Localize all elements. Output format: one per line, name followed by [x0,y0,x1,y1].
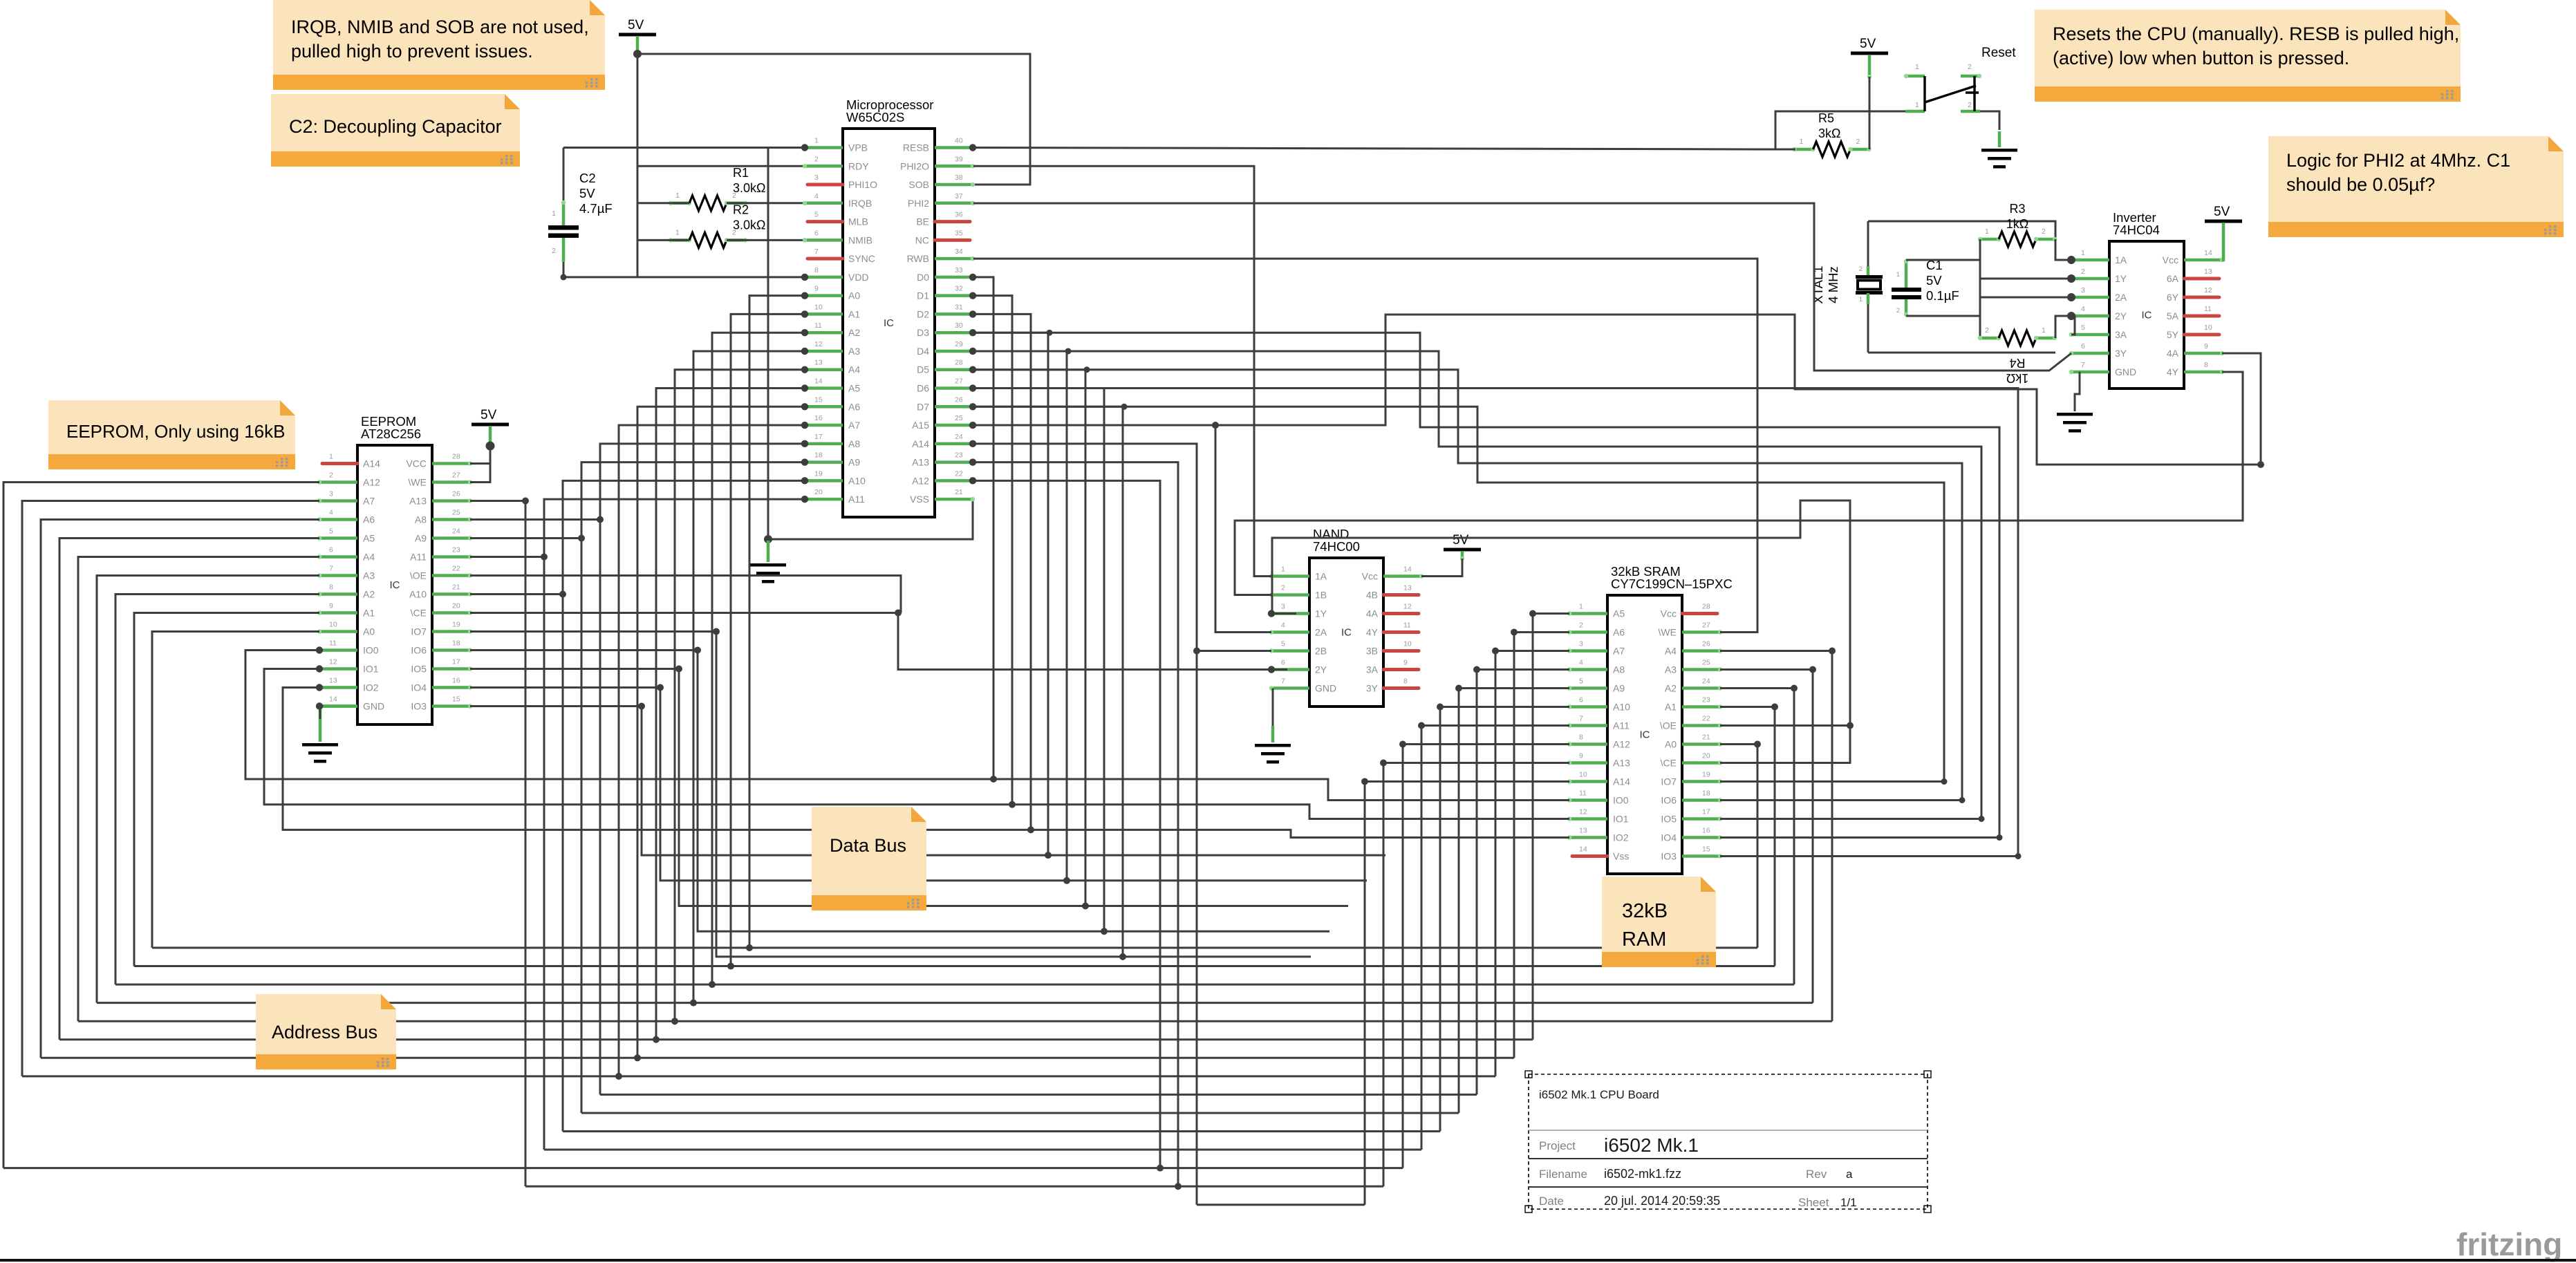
svg-text:10: 10 [1579,771,1587,779]
svg-text:A1: A1 [848,308,860,319]
wire 2A feed column [1215,425,1271,632]
svg-text:IRQB, NMIB and SOB are not use: IRQB, NMIB and SOB are not used, [291,17,589,37]
CPU W65C02S pin 21 VSS [910,488,975,505]
wire NAND 2Y to EEPROM CE and OE [470,613,1287,670]
wire R3 left to 1Y [1980,239,2071,279]
SRAM CY7C199 pin 17 IO5 [1661,808,1722,825]
CPU W65C02S pin 38 SOB [908,174,975,190]
svg-text:3: 3 [329,490,333,498]
wire EEPROM left pin 10 column [152,632,319,948]
svg-text:A11: A11 [1613,720,1630,731]
svg-text:1A: 1A [1315,571,1327,582]
EEPROM AT28C256 pin 17 IO5 [411,658,472,675]
EEPROM AT28C256 pin 10 A0 [317,621,375,637]
wire EEPROM left pin 7 column [97,576,319,1003]
wire 2Y to 3A [2071,316,2075,335]
SRAM CY7C199 pin 7 A11 [1567,715,1630,731]
wire EEPROM IO6 fan [470,649,698,651]
svg-text:RWB: RWB [907,253,929,264]
svg-text:2: 2 [329,471,333,480]
bottom border line [0,1259,2576,1262]
svg-text:3A: 3A [2115,329,2127,340]
svg-text:3: 3 [814,174,819,182]
svg-text:22: 22 [452,565,460,573]
EEPROM AT28C256 pin 1 A14 [322,453,380,469]
bus band column 6 up [1513,633,1515,1058]
capacitor C2 [548,148,613,281]
svg-text:RAM: RAM [1622,928,1666,951]
svg-text:2A: 2A [2115,292,2127,303]
svg-text:4: 4 [1281,621,1285,630]
svg-text:IRQB: IRQB [848,198,872,209]
svg-text:25: 25 [452,509,460,517]
svg-text:2: 2 [1985,326,1989,335]
svg-text:4Y: 4Y [2167,366,2179,377]
wire SRAM OE join [1720,724,1850,727]
wire EEPROM IO3 fan [470,705,642,707]
CPU W65C02S pin 32 D1 [917,285,976,301]
svg-text:A14: A14 [1613,776,1630,787]
SRAM CY7C199 pin 23 A1 [1665,696,1722,713]
svg-text:11: 11 [2204,305,2212,313]
bus band line 8 [600,1094,1477,1096]
NAND 74HC00 pin 5 2B [1269,640,1327,657]
svg-text:Sheet: Sheet [1798,1196,1829,1209]
svg-text:28: 28 [955,359,963,367]
CPU W65C02S pin 1 VPB [801,137,868,153]
bus band column 2 up [1793,689,1795,985]
svg-text:11: 11 [1403,621,1411,630]
svg-text:A9: A9 [415,533,427,544]
wire 5V column down to VDD rail [637,54,639,277]
svg-text:9: 9 [814,285,819,293]
wire inverter 4A join [2222,353,2261,465]
svg-text:24: 24 [955,433,963,441]
SRAM CY7C199 pin 9 A13 [1567,752,1630,769]
wire EEPROM left pin 4 column [41,520,319,1058]
svg-text:A11: A11 [410,552,427,563]
wire CPU A9 staircase column [581,462,805,1113]
bus band column 12 up [1402,745,1404,1168]
svg-text:A4: A4 [363,552,375,563]
svg-text:1: 1 [675,228,680,236]
svg-text:\WE: \WE [409,477,427,488]
wire CPU A2 staircase column [712,333,805,984]
svg-text:A13: A13 [912,457,929,468]
svg-text:fritzing: fritzing [2456,1226,2562,1262]
svg-text:A7: A7 [1613,646,1625,657]
svg-text:i6502 Mk.1 CPU Board: i6502 Mk.1 CPU Board [1539,1088,1659,1101]
svg-text:3A: 3A [1366,664,1379,675]
svg-text:VDD: VDD [848,272,869,283]
svg-text:27: 27 [452,471,460,480]
svg-text:SOB: SOB [908,179,929,190]
SRAM CY7C199 pin 15 IO3 [1661,845,1722,862]
wire VDD rail (C2 bottom) [563,276,805,278]
svg-text:38: 38 [955,174,963,182]
bus band column 13 up [1383,763,1385,1187]
svg-text:5V: 5V [628,18,644,32]
CPU W65C02S pin 39 PHI2O [900,155,975,171]
svg-text:25: 25 [1702,659,1710,667]
svg-text:5A: 5A [2167,310,2179,321]
EEPROM AT28C256 pin 11 IO0 [316,639,379,656]
svg-text:5V: 5V [1453,533,1469,548]
svg-text:14: 14 [1579,845,1587,854]
svg-text:2: 2 [1859,265,1863,273]
wire SRAM left pin join 1 [1514,631,1569,633]
svg-text:21: 21 [955,488,963,496]
bus band line 7 [22,1075,1495,1077]
resistor R1 3.0k [669,166,766,211]
svg-text:MLB: MLB [848,216,868,227]
svg-text:27: 27 [1702,621,1710,630]
svg-text:should be 0.05µf?: should be 0.05µf? [2286,174,2435,195]
svg-text:Vcc: Vcc [2163,254,2178,265]
svg-text:Rev: Rev [1806,1168,1827,1181]
CPU W65C02S pin 11 A2 [801,321,861,338]
svg-text:6: 6 [2081,342,2085,350]
IC SRAM CY7C199 body [1607,564,1733,874]
wire EEPROM IO5 column to data row [679,669,1348,906]
svg-text:6: 6 [329,546,333,554]
svg-text:A13: A13 [1613,758,1630,769]
bus band T junction A12 column [1157,1165,1164,1172]
svg-text:IO6: IO6 [411,645,427,656]
5V inverter [2205,205,2242,223]
svg-text:8: 8 [814,266,819,274]
svg-text:16: 16 [814,414,823,422]
svg-text:5V: 5V [2214,205,2230,219]
svg-text:A2: A2 [848,327,860,338]
CPU W65C02S pin 19 A10 [801,469,866,486]
SRAM CY7C199 pin 8 A12 [1567,733,1630,750]
svg-text:Vss: Vss [1613,851,1629,862]
EEPROM AT28C256 pin 15 IO3 [411,695,472,712]
IC EEPROM AT28C256 body [357,414,432,724]
svg-text:11: 11 [329,639,337,648]
wire 5V to EEPROM VCC and WE [470,446,490,483]
CPU W65C02S pin 25 A15 [912,414,976,431]
svg-text:19: 19 [814,469,823,478]
wire NAND 1Y up and right to SRAM CE [1272,500,1850,763]
wire EEPROM left pin 2 column [3,483,319,1168]
svg-text:3kΩ: 3kΩ [1818,127,1840,140]
svg-text:20: 20 [452,602,460,610]
svg-text:A1: A1 [363,608,375,619]
svg-text:39: 39 [955,155,963,163]
svg-text:7: 7 [329,565,333,573]
wire CPU A0 staircase column [749,296,805,948]
SRAM CY7C199 pin 16 IO4 [1661,827,1722,843]
svg-text:2: 2 [1968,101,1972,109]
CPU W65C02S pin 30 D3 [917,321,976,338]
svg-text:W65C02S: W65C02S [846,110,904,124]
svg-text:4B: 4B [1366,590,1378,601]
svg-text:PHI2: PHI2 [908,198,929,209]
svg-text:7: 7 [1281,677,1285,686]
svg-text:1Y: 1Y [2115,273,2127,284]
wire D2 staircase column [973,314,1031,830]
svg-text:R5: R5 [1818,111,1834,125]
CPU W65C02S pin 35 NC [915,229,970,245]
wire EEPROM GND pin to ground [320,704,357,708]
Inverter 74HC04 pin 9 4A [2167,342,2224,359]
CPU W65C02S pin 10 A1 [801,303,861,319]
svg-text:IO7: IO7 [411,626,427,637]
svg-text:5V: 5V [579,186,595,200]
svg-text:A8: A8 [1613,664,1625,675]
SRAM CY7C199 pin 28 Vcc [1661,603,1717,619]
svg-text:A0: A0 [363,626,375,637]
svg-text:8: 8 [1403,677,1408,686]
wire EEPROM OE join [470,576,901,613]
wire A13 right column [973,462,1178,1187]
bus band column 1 up [1774,707,1776,966]
svg-text:A7: A7 [363,496,375,507]
wire 5V rail to SOB [637,54,1030,185]
wire CPU A4 staircase column [675,370,805,1021]
EEPROM AT28C256 pin 3 A7 [317,490,375,507]
SRAM CY7C199 pin 1 A5 [1567,603,1625,619]
svg-text:1/1: 1/1 [1840,1196,1857,1209]
IC NAND 74HC00 body [1309,527,1383,707]
svg-text:A4: A4 [848,364,860,375]
svg-text:5Y: 5Y [2167,329,2179,340]
svg-text:A11: A11 [848,494,865,505]
svg-text:21: 21 [1702,733,1710,742]
svg-text:74HC00: 74HC00 [1313,539,1360,554]
ground below NAND [1255,726,1291,764]
junction dots inverter inputs [2067,256,2075,264]
resistor R5 3k [1792,111,1871,157]
SRAM CY7C199 pin 22 \OE [1660,715,1722,731]
svg-text:D2: D2 [917,308,929,319]
svg-text:R1: R1 [733,166,749,180]
svg-text:R4: R4 [2009,356,2025,370]
wire 2A feed [1980,297,2071,299]
svg-text:5V: 5V [1926,273,1942,288]
svg-text:CY7C199CN–15PXC: CY7C199CN–15PXC [1611,577,1733,591]
wire NAND GND pin down [1272,689,1274,727]
crystal XTAL1 4MHz [1811,221,1883,353]
wire inverter 4Y to NAND 1B [1235,372,2243,595]
svg-text:4: 4 [1579,659,1583,667]
wire SRAM left pin join 3 [1477,668,1569,671]
svg-text:D4: D4 [917,346,929,357]
svg-text:IO2: IO2 [1613,832,1629,843]
wire EEPROM left pin 3 column [22,501,319,1076]
EEPROM AT28C256 pin 27 \WE [409,471,473,488]
svg-text:D6: D6 [917,383,929,394]
bus wrap stub 0 [1720,743,1757,745]
SRAM CY7C199 pin 25 A3 [1665,659,1722,675]
svg-text:17: 17 [814,433,823,441]
svg-text:VCC: VCC [406,458,427,469]
wire D5 staircase column [973,370,1085,906]
svg-text:D7: D7 [917,401,929,412]
svg-text:26: 26 [1702,640,1710,648]
svg-text:5: 5 [1281,640,1285,648]
svg-text:14: 14 [329,695,337,704]
svg-text:Date: Date [1539,1195,1564,1208]
CPU W65C02S pin 16 A7 [801,414,861,431]
svg-text:5V: 5V [480,408,497,422]
Inverter 74HC04 pin 7 GND [2069,361,2136,377]
svg-text:D0: D0 [917,272,929,283]
svg-text:1Y: 1Y [1315,608,1327,619]
svg-text:IC: IC [2142,310,2152,321]
bus band column 4 up [1831,651,1833,1022]
SRAM CY7C199 pin 27 \WE [1659,621,1723,638]
wire SRAM left pin join 4 [1458,687,1569,689]
Inverter 74HC04 pin 4 2Y [2068,305,2127,321]
svg-text:12: 12 [2204,286,2212,294]
svg-text:0.1µF: 0.1µF [1926,288,1959,303]
bus band column 10 up [1439,707,1441,1132]
5V symbol above CPU [619,18,656,37]
svg-text:IO6: IO6 [1661,795,1677,806]
svg-text:1: 1 [2081,249,2085,257]
CPU W65C02S pin 12 A3 [801,340,861,357]
resistor R3 1k [1978,202,2057,247]
CPU W65C02S pin 9 A0 [801,285,861,301]
svg-text:IO7: IO7 [1661,776,1677,787]
wire NAND 2B from A14 column [1197,650,1271,652]
svg-text:IO0: IO0 [363,645,379,656]
SRAM CY7C199 pin 10 A14 [1567,771,1630,787]
svg-text:5V: 5V [1860,37,1876,51]
wire EEPROM IO1 to data row 1 [264,669,1569,819]
wire CPU A10 staircase column [563,480,805,1131]
svg-text:1: 1 [1985,227,1989,236]
svg-text:\CE: \CE [1661,758,1677,769]
svg-text:4Y: 4Y [1366,627,1379,638]
svg-text:Vcc: Vcc [1362,571,1378,582]
wire R2 to NMIB [637,239,689,241]
EEPROM AT28C256 pin 4 A6 [317,509,375,525]
svg-text:5: 5 [2081,324,2085,332]
svg-text:A0: A0 [1665,739,1677,750]
Inverter 74HC04 pin 14 Vcc [2163,249,2225,265]
svg-text:A12: A12 [912,475,929,486]
svg-text:D1: D1 [917,290,929,301]
svg-text:34: 34 [955,247,963,256]
svg-text:IC: IC [1341,627,1352,639]
svg-text:4A: 4A [1366,608,1379,619]
svg-text:2A: 2A [1315,627,1327,638]
svg-text:A3: A3 [848,346,860,357]
svg-text:4: 4 [2081,305,2085,313]
bus band column 7 up [1495,651,1497,1076]
wire CPU A3 staircase column [693,351,805,1003]
note Address Bus [256,994,396,1069]
svg-text:A15: A15 [912,420,929,431]
wire EEPROM IO4 column to data row [660,688,1367,881]
svg-text:2: 2 [552,247,556,255]
CPU W65C02S pin 29 D4 [917,340,976,357]
svg-text:4A: 4A [2167,348,2179,359]
bus band line 12 [3,1167,1403,1169]
svg-text:A14: A14 [912,438,929,449]
svg-text:A4: A4 [1665,646,1677,657]
svg-text:8: 8 [1579,733,1583,742]
svg-text:74HC04: 74HC04 [2113,223,2160,237]
Inverter 74HC04 pin 1 1A [2068,249,2127,265]
ground below CPU [750,541,786,583]
svg-text:2: 2 [1281,584,1285,592]
NAND 74HC00 pin 3 1Y [1268,603,1327,619]
svg-text:31: 31 [955,303,963,311]
wire CPU A1 staircase column [731,314,805,966]
wire D7 staircase column [973,406,1123,957]
wire D5 nest route [973,370,1962,801]
svg-text:2: 2 [1579,621,1583,630]
NAND 74HC00 pin 6 2Y [1268,659,1327,675]
svg-text:NC: NC [915,234,929,245]
svg-text:18: 18 [452,639,460,648]
svg-text:22: 22 [1702,715,1710,723]
svg-text:1: 1 [552,209,556,218]
NAND 74HC00 pin 9 3A [1366,659,1419,675]
note Data Bus [812,807,926,910]
svg-text:A10: A10 [848,475,866,486]
CPU W65C02S pin 20 A11 [801,488,865,505]
svg-text:8: 8 [2204,361,2208,369]
svg-text:7: 7 [814,247,819,256]
wire C1 bottom to 2A net [1906,315,1980,317]
svg-text:19: 19 [1702,771,1710,779]
svg-text:3B: 3B [1366,646,1378,657]
svg-text:28: 28 [1702,603,1710,611]
resistor R4 1k [1978,326,2057,385]
svg-text:IO1: IO1 [363,664,379,675]
svg-text:32kB: 32kB [1622,900,1668,922]
svg-text:1: 1 [1915,63,1919,71]
wire A14 right column [973,444,1197,1205]
wire VSS to ground [768,499,973,539]
svg-text:C2: Decoupling Capacitor: C2: Decoupling Capacitor [289,116,502,137]
5V NAND [1444,533,1481,561]
svg-text:A8: A8 [848,438,860,449]
Inverter 74HC04 pin 12 6Y [2167,286,2219,303]
bus band column 14 up [1364,782,1366,1205]
CPU W65C02S pin 28 D5 [917,359,976,375]
svg-text:Data Bus: Data Bus [830,835,906,856]
svg-text:VSS: VSS [910,494,929,505]
wire crystal bottom rail [1868,352,2055,354]
svg-text:A10: A10 [409,589,427,600]
wire R3 right to 1A [2055,239,2071,260]
EEPROM AT28C256 pin 25 A8 [415,509,472,525]
svg-text:14: 14 [2204,249,2212,257]
svg-text:12: 12 [1579,808,1587,816]
wire EEPROM left pin 5 column [59,539,319,1040]
IC CPU W65C02S body [843,97,935,517]
svg-text:R2: R2 [733,203,749,216]
ground below inverter [2057,413,2093,433]
svg-text:5: 5 [814,211,819,219]
CPU W65C02S pin 26 D7 [917,395,976,412]
svg-text:10: 10 [1403,640,1412,648]
junction 5V rail [633,50,642,58]
svg-text:36: 36 [955,211,963,219]
CPU W65C02S pin 5 MLB [808,211,868,227]
svg-text:2: 2 [2081,268,2085,276]
svg-text:28: 28 [452,453,460,461]
wire VPB ground column [767,148,769,540]
svg-text:A9: A9 [848,457,860,468]
